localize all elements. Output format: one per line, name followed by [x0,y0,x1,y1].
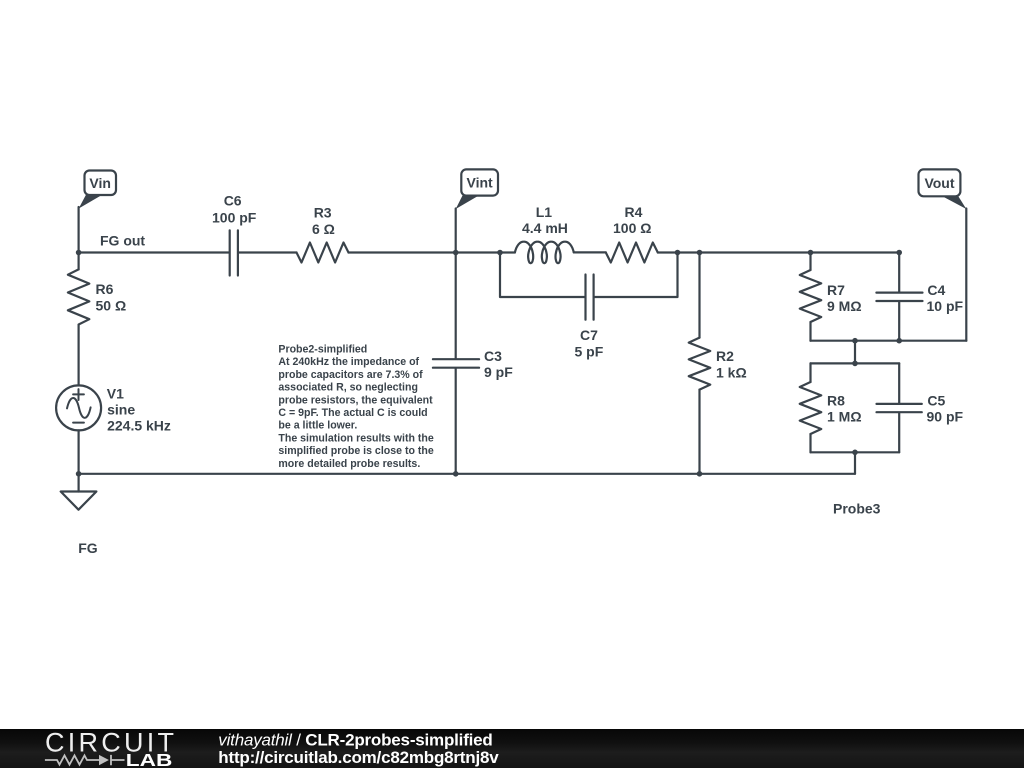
svg-text:C5: C5 [927,392,945,408]
bottom rail [79,473,855,475]
resistor R6 [68,269,90,324]
wire top rail node A to C6 [79,251,229,253]
wire Vint flag down to C3 [455,209,457,359]
wire C3 to bottom rail [455,369,457,474]
svg-text:probe capacitors are 7.3% of: probe capacitors are 7.3% of [278,369,423,381]
svg-text:100 Ω: 100 Ω [613,220,651,236]
logo diode triangle [99,755,109,765]
resistor R3 [297,243,349,263]
node B [497,250,503,256]
wire R4 to node F [658,251,899,253]
svg-text:associated R, so neglecting: associated R, so neglecting [278,382,418,394]
svg-text:Probe2-simplified: Probe2-simplified [278,344,367,356]
logo resistor-diode glyph [45,755,125,765]
svg-text:Vint: Vint [466,175,493,191]
node flag Vin [85,171,117,196]
node flag Vout [919,169,961,196]
svg-text:LAB: LAB [126,750,173,768]
svg-text:At 240kHz the impedance of: At 240kHz the impedance of [278,356,419,368]
svg-text:90 pF: 90 pF [927,409,964,425]
node A [76,250,82,256]
flag tail Vout [940,195,966,209]
svg-text:simplified probe is close to t: simplified probe is close to the [278,445,434,457]
svg-text:4.4 mH: 4.4 mH [522,220,568,236]
wire node M to bottom rail [854,452,856,474]
svg-text:R7: R7 [827,282,845,298]
svg-text:C = 9pF. The actual C is could: C = 9pF. The actual C is could [278,407,427,419]
node K [896,338,902,344]
node E [808,250,814,256]
capacitor C6 [230,230,238,275]
wire Vin flag to node A [77,207,79,253]
capacitor C5 [877,404,922,412]
wire node J to R8 box [854,341,856,364]
resistor R4 [606,243,658,263]
svg-text:vithayathil / CLR-2probes-simp: vithayathil / CLR-2probes-simplified [218,730,492,749]
resistor R6 leads [77,253,79,386]
ground FG symbol [61,492,97,510]
node F [896,250,902,256]
wire R8 C5 bottom [811,451,900,453]
footer bar [0,729,1024,768]
node H [453,471,459,477]
voltage source V1 [56,385,101,430]
svg-text:probe resistors, the equivalen: probe resistors, the equivalent [278,394,433,406]
wire C7 branch right leg [595,253,678,298]
flag tail Vin [79,194,104,209]
wire R8 C5 top [811,362,900,364]
svg-text:R4: R4 [625,204,643,220]
wire R3 to node B through Vint node [349,251,501,253]
svg-text:5 pF: 5 pF [575,344,604,360]
node flag Vint [461,169,498,195]
svg-text:1 MΩ: 1 MΩ [827,409,862,425]
capacitor C5 leads [898,363,900,452]
svg-text:C7: C7 [580,327,598,343]
node M [852,450,858,456]
svg-text:Vout: Vout [924,175,954,191]
resistor R7 leads [809,253,811,341]
svg-text:1 kΩ: 1 kΩ [716,365,747,381]
wire L1 to R4 [574,251,606,253]
svg-text:V1: V1 [107,386,124,402]
svg-text:Probe3: Probe3 [833,501,881,517]
capacitor C3 [433,359,479,368]
wire C6 to R3 [239,251,297,253]
wire V1 to ground node [77,430,79,474]
svg-text:more detailed probe results.: more detailed probe results. [278,458,420,470]
resistor R8 leads [809,363,811,452]
svg-text:Vin: Vin [89,175,111,191]
svg-text:10 pF: 10 pF [927,298,964,314]
svg-text:The simulation results with th: The simulation results with the [278,432,434,444]
resistor R2 [689,338,711,390]
svg-text:100 pF: 100 pF [212,210,257,226]
svg-text:be a little lower.: be a little lower. [278,420,357,432]
node G [76,471,82,477]
resistor R8 [800,382,822,434]
resistor R2 leads [698,253,700,474]
svg-text:C6: C6 [224,193,242,209]
svg-text:R2: R2 [716,348,734,364]
node D [697,250,703,256]
V1 minus sign [73,422,84,424]
svg-text:sine: sine [107,402,135,418]
svg-text:R8: R8 [827,392,845,408]
flag tail Vint [456,195,481,210]
capacitor C7 [586,275,594,320]
resistor R7 [800,270,822,322]
node I [697,471,703,477]
svg-text:http://circuitlab.com/c82mbg8r: http://circuitlab.com/c82mbg8rtnj8v [218,748,499,767]
svg-text:C3: C3 [484,348,502,364]
svg-text:L1: L1 [536,204,553,220]
svg-text:6 Ω: 6 Ω [312,221,335,237]
capacitor C4 leads [898,253,900,341]
wire R7 C4 bottom [811,340,967,342]
svg-text:9 pF: 9 pF [484,364,513,380]
svg-text:224.5 kHz: 224.5 kHz [107,417,171,433]
svg-text:R3: R3 [314,205,332,221]
wire node B to L1 [500,251,515,253]
wire ground lead [77,474,79,492]
wire Vout flag down [965,209,967,341]
svg-text:R6: R6 [96,281,114,297]
svg-text:FG: FG [78,540,98,556]
node L [852,361,858,367]
V1 plus sign [73,389,84,400]
svg-text:FG out: FG out [100,233,145,249]
wire C7 branch left leg [500,253,584,298]
node Vint [453,250,459,256]
svg-text:C4: C4 [927,282,945,298]
capacitor C4 [876,293,922,301]
inductor L1 [515,242,574,263]
node J [852,338,858,344]
svg-text:9 MΩ: 9 MΩ [827,298,862,314]
svg-text:50 Ω: 50 Ω [96,298,127,314]
V1 sine wave [67,398,91,418]
node C [675,250,681,256]
